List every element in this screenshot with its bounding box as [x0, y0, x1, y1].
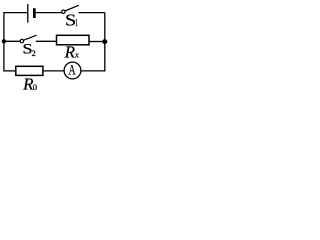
svg-text:1: 1 — [75, 18, 78, 29]
switch S1 contact circle — [62, 10, 65, 13]
wire left junction to switch S2 — [4, 40, 20, 42]
svg-text:A: A — [68, 61, 76, 78]
svg-text:2: 2 — [32, 49, 36, 58]
switch S2 blade — [24, 35, 37, 40]
svg-text:0: 0 — [33, 82, 37, 92]
node left junction — [2, 39, 6, 43]
wire battery to switch S1 — [36, 12, 62, 14]
switch S2 contact circle — [20, 39, 23, 42]
resistor Rx box — [57, 35, 90, 45]
wire S1 to top-right corner and down right side — [79, 13, 105, 71]
wire left side vertical — [3, 12, 5, 72]
resistor R0 box — [16, 66, 43, 75]
ammeter A circle — [64, 62, 81, 79]
node right junction — [102, 39, 107, 44]
svg-text:x: x — [74, 51, 79, 60]
wire ammeter to bottom-right corner — [82, 70, 106, 72]
wire Rx to right junction — [89, 41, 103, 43]
wire S2 to resistor Rx — [36, 40, 57, 42]
wire top-left (left corner to battery) — [4, 12, 28, 14]
wire R0 to ammeter — [43, 70, 64, 72]
wire bottom-left corner to resistor R0 — [4, 70, 16, 72]
switch S1 blade — [65, 5, 79, 11]
battery short thick plate (negative) — [33, 8, 36, 18]
battery long plate (positive) — [27, 4, 29, 23]
svg-text:R: R — [64, 43, 76, 62]
